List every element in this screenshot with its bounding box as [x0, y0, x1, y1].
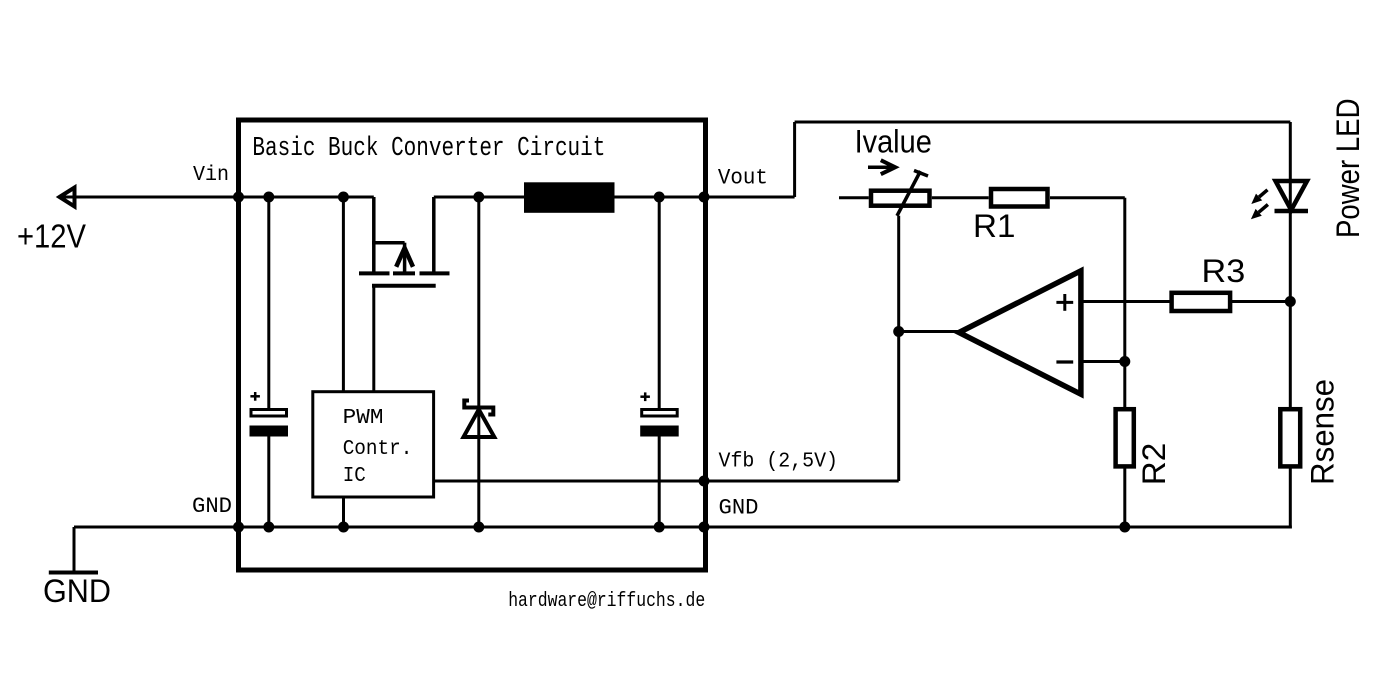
svg-text:IC: IC	[343, 465, 366, 488]
wire Vout riser	[793, 122, 796, 197]
arrow chevron	[396, 248, 413, 267]
svg-text:R1: R1	[973, 208, 1015, 244]
svg-text:Vfb (2,5V): Vfb (2,5V)	[719, 451, 839, 474]
wire diode anode to GND	[477, 406, 480, 527]
channel segments	[359, 271, 390, 275]
wire Vfb riser to op-amp output	[897, 216, 900, 481]
supply arrow +12V	[60, 188, 75, 207]
node switch-diode	[473, 192, 484, 203]
wire minus riser to R2	[1123, 198, 1126, 407]
svg-text:GND: GND	[719, 496, 759, 521]
wire op-amp minus input	[1081, 360, 1125, 363]
wire Vin inside box	[241, 196, 374, 199]
wire op-amp plus input to R3	[1081, 300, 1171, 303]
wire R1 to minus riser	[1050, 196, 1125, 199]
op-amp U2	[959, 271, 1081, 394]
wire pot to R1	[932, 196, 989, 199]
arrow shaft	[403, 243, 407, 274]
wire GND bus	[74, 526, 1292, 529]
capacitor C1	[250, 392, 289, 437]
wire gate to PWM IC	[372, 286, 375, 392]
wire Vin to PWM IC	[342, 197, 345, 392]
svg-text:GND: GND	[43, 573, 111, 609]
node op-amp output	[893, 326, 904, 337]
svg-text:R2: R2	[1136, 443, 1172, 486]
svg-text:Vin: Vin	[193, 164, 229, 187]
node GND left edge	[233, 522, 244, 533]
wire LED cathode to R3 node	[1289, 210, 1292, 407]
wire top bus	[795, 121, 1291, 124]
svg-text:PWM: PWM	[343, 407, 384, 430]
node C1 top	[263, 192, 274, 203]
inductor L1	[524, 182, 615, 213]
svg-text:Ivalue: Ivalue	[855, 124, 932, 160]
node R2 GND	[1119, 522, 1130, 533]
adjust arrow for Ivalue	[868, 160, 895, 174]
node minus input	[1119, 356, 1130, 367]
svg-text:Rsense: Rsense	[1304, 379, 1340, 485]
wire Vfb from PWM IC to right	[434, 480, 899, 483]
capacitor C2	[640, 392, 679, 436]
drain lead	[432, 197, 436, 273]
wire op-amp output	[899, 330, 959, 333]
wire Rsense to GND	[1289, 466, 1292, 529]
svg-text:Contr.: Contr.	[343, 438, 413, 461]
node C2 top	[654, 192, 665, 203]
resistor R1	[991, 189, 1048, 207]
wire LED anode	[1289, 122, 1292, 210]
wire capacitor C2 top lead	[658, 197, 661, 410]
wire Vout from box	[706, 196, 795, 199]
PWM controller IC U1	[313, 392, 434, 497]
resistor Rsense	[1280, 409, 1300, 466]
wire R2 to GND	[1123, 466, 1126, 527]
wire capacitor C2 bottom lead	[658, 430, 661, 527]
svg-text:R3: R3	[1202, 253, 1246, 289]
wire capacitor C1 top lead	[267, 197, 270, 410]
LED D2	[1251, 181, 1308, 219]
svg-text:GND: GND	[192, 494, 232, 519]
wire switch node to diode	[477, 197, 480, 406]
node Vout	[699, 192, 710, 203]
wire GND stub left	[73, 527, 76, 571]
transistor Q1	[359, 197, 450, 286]
diode D1	[464, 401, 495, 438]
wire PWM IC to GND	[342, 497, 345, 527]
node Vin	[233, 192, 244, 203]
ground	[49, 571, 98, 575]
node IC GND	[338, 522, 349, 533]
node Vfb edge	[699, 476, 710, 487]
gate bar	[372, 284, 436, 288]
wire drain to inductor	[434, 196, 524, 199]
svg-text:hardware@riffuchs.de: hardware@riffuchs.de	[508, 590, 705, 613]
wire inductor to box edge	[615, 196, 705, 199]
resistor R2	[1116, 409, 1134, 466]
node sense	[1285, 296, 1296, 307]
source stub	[372, 241, 405, 245]
source lead	[372, 197, 376, 273]
svg-text:Vout: Vout	[718, 166, 768, 191]
node diode GND	[473, 522, 484, 533]
wire pot left stub	[839, 196, 869, 199]
wire +12V supply to box	[62, 196, 238, 199]
svg-text:Basic Buck Converter Circuit: Basic Buck Converter Circuit	[252, 134, 605, 164]
converter box	[239, 120, 706, 570]
wire capacitor C1 bottom lead	[267, 430, 270, 527]
node IC supply	[338, 192, 349, 203]
resistor R3	[1172, 293, 1231, 311]
node C2 bottom	[654, 522, 665, 533]
node GND right edge	[699, 522, 710, 533]
svg-text:+12V: +12V	[17, 218, 86, 255]
wire R3 to sense node	[1231, 300, 1290, 303]
svg-text:Power LED: Power LED	[1330, 99, 1366, 239]
node C1 bottom	[263, 522, 274, 533]
potentiometer Ivalue	[871, 171, 930, 216]
